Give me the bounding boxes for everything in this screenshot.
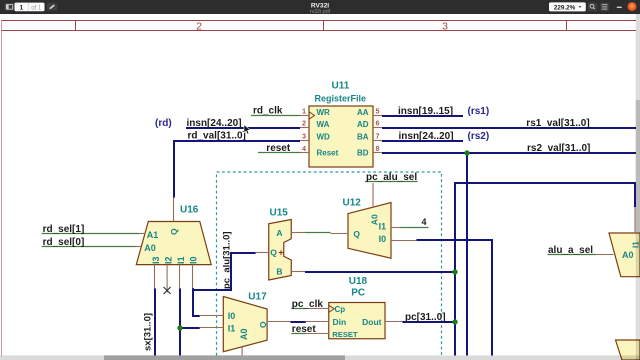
- svg-text:Q: Q: [169, 228, 179, 235]
- svg-text:insn[24..20]: insn[24..20]: [187, 118, 242, 129]
- svg-text:Din: Din: [333, 317, 347, 327]
- svg-text:7: 7: [376, 132, 380, 141]
- svg-text:rs2_val[31..0]: rs2_val[31..0]: [527, 143, 590, 154]
- svg-text:AD: AD: [357, 120, 369, 129]
- svg-text:BD: BD: [357, 149, 369, 158]
- svg-text:(rs1): (rs1): [468, 106, 490, 117]
- svg-text:(rs2): (rs2): [468, 131, 490, 142]
- svg-text:5: 5: [376, 107, 380, 116]
- svg-text:229.2%: 229.2%: [554, 5, 576, 12]
- svg-text:I0: I0: [228, 311, 236, 321]
- svg-text:insn[24..20]: insn[24..20]: [399, 131, 454, 142]
- svg-text:3: 3: [302, 132, 306, 141]
- svg-text:Cp: Cp: [335, 305, 346, 314]
- svg-text:B: B: [276, 267, 282, 277]
- svg-text:3: 3: [442, 20, 448, 32]
- svg-text:WD: WD: [317, 133, 331, 142]
- svg-text:rv32i.pdf: rv32i.pdf: [310, 9, 331, 14]
- svg-text:RESET: RESET: [332, 330, 358, 339]
- svg-text:U17: U17: [248, 292, 267, 303]
- svg-text:RegisterFile: RegisterFile: [315, 94, 367, 104]
- svg-text:6: 6: [376, 119, 380, 128]
- svg-text:U12: U12: [343, 197, 362, 208]
- svg-text:4: 4: [421, 217, 426, 227]
- svg-text:(rd): (rd): [155, 118, 172, 129]
- svg-text:pc_alu_sel: pc_alu_sel: [366, 172, 417, 183]
- svg-text:rs1_val[31..0]: rs1_val[31..0]: [526, 118, 589, 129]
- svg-text:U11: U11: [332, 81, 350, 92]
- svg-text:8: 8: [376, 144, 380, 153]
- svg-text:insn[19..15]: insn[19..15]: [398, 106, 453, 117]
- svg-text:of 1: of 1: [31, 6, 42, 12]
- svg-text:Q: Q: [258, 321, 268, 328]
- svg-text:A0: A0: [622, 250, 634, 260]
- svg-text:PC: PC: [351, 288, 365, 299]
- svg-text:4: 4: [302, 144, 307, 153]
- svg-text:BA: BA: [357, 133, 369, 142]
- svg-text:1: 1: [302, 107, 306, 116]
- svg-text:I1: I1: [379, 222, 387, 232]
- svg-text:reset: reset: [266, 143, 291, 154]
- svg-text:A1: A1: [147, 230, 159, 240]
- svg-text:U18: U18: [349, 276, 368, 287]
- svg-text:rd_val[31..0]: rd_val[31..0]: [188, 131, 246, 142]
- svg-text:WA: WA: [317, 120, 330, 129]
- svg-text:U15: U15: [270, 207, 289, 218]
- svg-text:I0: I0: [189, 256, 199, 264]
- svg-text:sx[31..0]: sx[31..0]: [143, 313, 154, 351]
- svg-text:Reset: Reset: [317, 149, 339, 158]
- svg-text:AA: AA: [357, 108, 369, 117]
- svg-text:U16: U16: [180, 205, 199, 216]
- svg-text:rd_sel[1]: rd_sel[1]: [43, 224, 85, 235]
- svg-text:reset: reset: [292, 324, 317, 335]
- svg-text:2: 2: [196, 20, 202, 32]
- svg-text:alu_a_sel: alu_a_sel: [548, 245, 593, 256]
- svg-text:2: 2: [302, 119, 306, 128]
- svg-text:pc[31..0]: pc[31..0]: [405, 312, 446, 323]
- svg-text:rd_sel[0]: rd_sel[0]: [43, 237, 85, 248]
- svg-text:pc_clk: pc_clk: [292, 299, 324, 310]
- svg-text:A: A: [276, 228, 282, 238]
- svg-text:I1: I1: [176, 256, 186, 264]
- svg-text:Q: Q: [353, 229, 360, 239]
- svg-text:pc_alu[31..0]: pc_alu[31..0]: [222, 231, 233, 289]
- svg-text:I2: I2: [164, 256, 174, 264]
- svg-text:A0: A0: [144, 243, 156, 253]
- svg-text:Dout: Dout: [362, 317, 382, 327]
- svg-text:I3: I3: [151, 256, 161, 264]
- svg-text:Q: Q: [270, 248, 277, 258]
- svg-text:I0: I0: [379, 234, 387, 244]
- svg-text:rd_clk: rd_clk: [253, 106, 283, 117]
- svg-text:1: 1: [19, 5, 23, 12]
- svg-text:+: +: [278, 248, 283, 258]
- svg-text:A0: A0: [239, 328, 249, 340]
- svg-text:I1: I1: [228, 324, 236, 334]
- svg-text:WR: WR: [317, 108, 331, 117]
